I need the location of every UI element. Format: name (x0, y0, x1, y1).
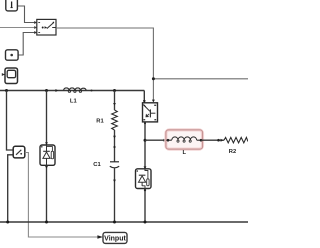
wire: junction to inductor L (145, 139, 166, 141)
highlighted inductor L block (166, 130, 203, 149)
wire: C1 to bottom bus (114, 168, 116, 222)
node: bottom bus left (6, 221, 9, 224)
resistor R1 branch wire upper (114, 91, 116, 111)
wire: R1 to C1 (114, 130, 116, 162)
wire: bus down to mosfet drain (143, 91, 145, 103)
resistor R2 (224, 137, 248, 143)
svg-text:C1: C1 (93, 162, 101, 168)
node: gate junction (152, 77, 155, 80)
node: bottom bus C1 (113, 221, 116, 224)
wire: diode D2 to bottom bus (144, 189, 146, 223)
wire: voltmeter output to Vinput tag (25, 153, 100, 238)
voltage measurement block (13, 146, 25, 158)
node: bottom bus diode D1 (45, 221, 48, 224)
svg-text:Vinput: Vinput (104, 235, 126, 242)
node: before R2 (217, 139, 220, 142)
node: bottom bus diode D2 (144, 221, 147, 224)
wire: switch output to gate node (56, 28, 153, 102)
svg-text:R1: R1 (96, 118, 104, 124)
resistor R1 (112, 110, 118, 130)
goto tag Vinput (103, 232, 127, 243)
wire: bottom bus (0, 221, 248, 223)
node: top bus / diode branch (45, 89, 48, 92)
svg-text:L: L (183, 150, 187, 156)
svg-text:R2: R2 (229, 149, 236, 155)
wire: constant to switch input 3 (18, 33, 36, 56)
inductor L1 (56, 89, 59, 92)
diode D1 block (40, 145, 55, 165)
mosfet Q1 block (143, 103, 158, 122)
constant block (6, 50, 19, 60)
wire: gate node branch to right edge (153, 78, 248, 80)
diode D2 block (136, 169, 152, 189)
wire: L to R2 (201, 139, 224, 141)
scope block (2, 74, 5, 76)
pulse generator block (6, 0, 18, 11)
wire: voltmeter minus to bottom bus (8, 155, 14, 222)
wire: junction down to diode D2 (144, 166, 147, 169)
switch block U-switch (37, 19, 56, 35)
wire: pulse source to switch input 1 (17, 6, 35, 23)
node: top bus / R1 branch (113, 89, 116, 92)
svg-text:L1: L1 (70, 98, 78, 104)
wire: external signal to switch input 2 (0, 27, 36, 29)
wire: diode branch from top bus (46, 91, 48, 145)
wire: top bus (0, 90, 144, 92)
node: source junction to L (144, 139, 147, 142)
capacitor C1 (110, 161, 119, 163)
wire: left branch down to voltmeter (7, 91, 14, 151)
wire: diode D1 to bottom bus (46, 165, 48, 222)
node: top bus / left branch (5, 89, 8, 92)
wire: mosfet source down (144, 122, 146, 169)
